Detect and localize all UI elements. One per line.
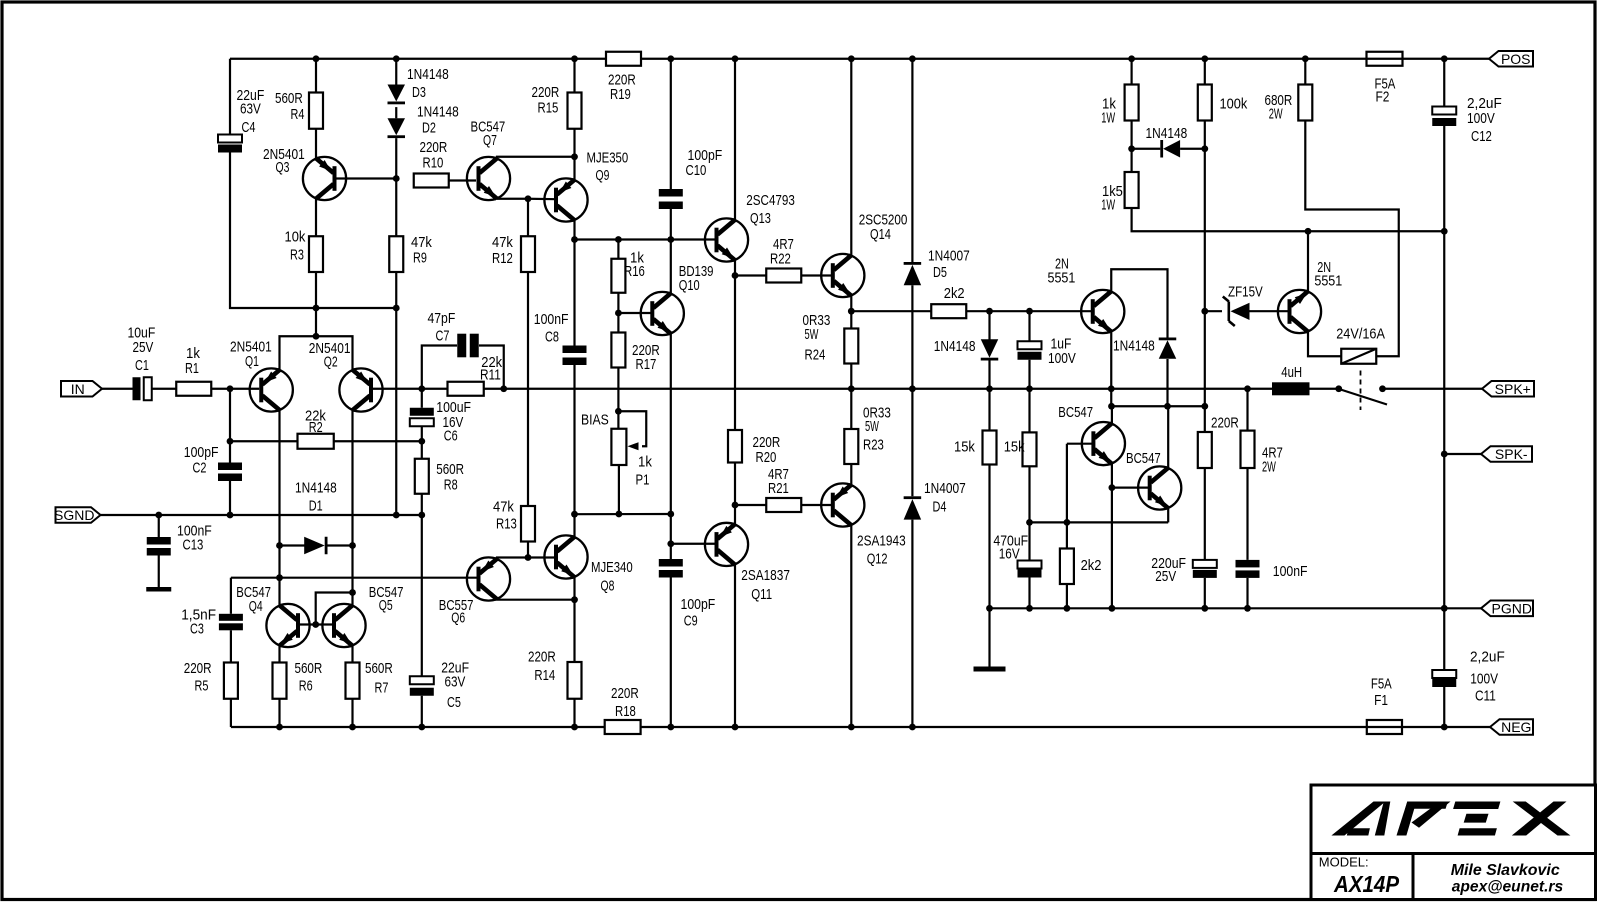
diode D 1N4148 bbox=[1160, 140, 1180, 158]
resistor R 4R7 2W bbox=[1241, 431, 1255, 468]
svg-text:100V: 100V bbox=[1467, 110, 1495, 127]
junction dot bbox=[909, 385, 916, 392]
junction dot bbox=[1026, 308, 1033, 315]
svg-text:1N4148: 1N4148 bbox=[1146, 125, 1188, 142]
svg-text:C10: C10 bbox=[686, 162, 707, 179]
junction dot bbox=[418, 438, 425, 445]
svg-text:47k: 47k bbox=[493, 499, 514, 516]
svg-text:R21: R21 bbox=[768, 480, 789, 497]
svg-text:100nF: 100nF bbox=[534, 311, 569, 328]
junction dot bbox=[1201, 55, 1208, 62]
wire R17 to P1 bbox=[617, 368, 619, 429]
svg-text:Q12: Q12 bbox=[867, 551, 888, 568]
svg-text:R24: R24 bbox=[805, 347, 826, 364]
resistor R10 220R bbox=[414, 174, 449, 188]
wire Q8 collector bbox=[573, 514, 575, 537]
transistor Q18 2N5551 bbox=[1278, 290, 1321, 333]
wire Q1 collector down bbox=[278, 410, 280, 545]
junction dot bbox=[848, 55, 855, 62]
wire R7 to bottom rail bbox=[351, 699, 353, 727]
node PGND bbox=[1481, 601, 1533, 617]
junction dot bbox=[571, 153, 578, 160]
svg-text:2,2uF: 2,2uF bbox=[1470, 649, 1505, 666]
capacitor C 220uF 25V bbox=[1193, 560, 1217, 578]
wire R13 bottom bbox=[527, 542, 529, 558]
wire Q4 emitter to R6 bbox=[278, 646, 280, 663]
svg-text:R16: R16 bbox=[624, 263, 645, 280]
svg-text:apex@eunet.rs: apex@eunet.rs bbox=[1452, 879, 1564, 896]
junction dot bbox=[1441, 451, 1448, 458]
svg-text:1N4148: 1N4148 bbox=[417, 104, 459, 121]
junction dot bbox=[1441, 724, 1448, 731]
resistor R6 560R bbox=[273, 663, 287, 699]
resistor R3 10k bbox=[309, 236, 323, 272]
ground bbox=[974, 667, 1006, 672]
wire R2 left bbox=[230, 440, 298, 442]
wire R16 top bbox=[617, 240, 619, 259]
transistor Q15 2N5551 bbox=[1081, 290, 1124, 333]
svg-text:ZF15V: ZF15V bbox=[1228, 284, 1263, 301]
junction dot bbox=[1026, 519, 1033, 526]
svg-text:1k: 1k bbox=[638, 454, 652, 471]
wire Q9 base bbox=[528, 198, 556, 201]
wire to 470uF bbox=[1028, 522, 1030, 560]
wire to 1N4148 bbox=[1132, 148, 1161, 150]
wire Q10 emitter down bbox=[670, 334, 672, 514]
svg-text:R10: R10 bbox=[423, 155, 444, 172]
svg-text:C11: C11 bbox=[1475, 688, 1496, 705]
wire Q7 emitter to R12 node bbox=[497, 198, 528, 200]
resistor R22 4R7 bbox=[766, 269, 801, 283]
wire mirror to Q6 base bbox=[231, 577, 477, 579]
wire to R22 bbox=[735, 274, 766, 276]
svg-text:D1: D1 bbox=[309, 498, 323, 515]
svg-text:1N4148: 1N4148 bbox=[407, 66, 449, 83]
svg-text:25V: 25V bbox=[133, 339, 154, 356]
node NEG bbox=[1490, 719, 1533, 735]
svg-text:C8: C8 bbox=[545, 329, 559, 346]
junction dot bbox=[276, 542, 283, 549]
junction dot bbox=[349, 542, 356, 549]
resistor R 220R bbox=[1198, 432, 1212, 468]
wire IN to C1 bbox=[102, 388, 133, 390]
svg-text:C2: C2 bbox=[193, 460, 207, 477]
resistor R 2k2 bbox=[931, 304, 966, 318]
wire to zener bbox=[1205, 310, 1222, 312]
junction dot bbox=[732, 272, 739, 279]
wire R3 to LTP emitters bbox=[315, 272, 317, 336]
svg-text:5W: 5W bbox=[805, 326, 819, 343]
svg-text:R13: R13 bbox=[496, 516, 517, 533]
svg-text:63V: 63V bbox=[445, 674, 466, 691]
P1 wiper arrow bbox=[628, 442, 639, 450]
svg-text:1N4007: 1N4007 bbox=[928, 248, 970, 265]
wire output to R23 bbox=[850, 389, 852, 429]
wire R15 top bbox=[573, 59, 575, 93]
svg-text:5551: 5551 bbox=[1048, 270, 1076, 287]
svg-text:D5: D5 bbox=[933, 264, 947, 281]
wire C2 to SGND bbox=[229, 481, 231, 515]
transistor Q3 2N5401 bbox=[303, 157, 346, 200]
svg-text:220R: 220R bbox=[611, 685, 639, 702]
svg-text:R20: R20 bbox=[756, 449, 777, 466]
wire Q13 collector bbox=[734, 59, 736, 220]
junction dot bbox=[848, 724, 855, 731]
wire 1N4148 to sense line bbox=[1166, 359, 1168, 406]
wire Q13 emitter bbox=[734, 260, 736, 275]
relay coil 24V/16A bbox=[1341, 349, 1376, 364]
svg-text:R4: R4 bbox=[291, 106, 305, 123]
potentiometer P1 1k bbox=[611, 429, 626, 465]
wire R14 to bottom rail bbox=[573, 699, 575, 727]
svg-text:220R: 220R bbox=[420, 139, 448, 156]
svg-text:Q4: Q4 bbox=[249, 598, 263, 615]
svg-text:220R: 220R bbox=[532, 84, 560, 101]
wire 470uF to pgnd bbox=[1028, 578, 1030, 609]
svg-text:P1: P1 bbox=[636, 472, 650, 489]
svg-text:5W: 5W bbox=[865, 418, 879, 435]
svg-text:C4: C4 bbox=[242, 119, 256, 136]
svg-text:R7: R7 bbox=[375, 680, 389, 697]
svg-text:R5: R5 bbox=[195, 678, 209, 695]
junction dot bbox=[1108, 385, 1115, 392]
wire bottom rail left bbox=[231, 726, 605, 728]
junction dot bbox=[418, 385, 425, 392]
svg-text:R18: R18 bbox=[615, 703, 636, 720]
ground bbox=[146, 587, 171, 592]
junction dot bbox=[1026, 385, 1033, 392]
junction dot bbox=[1026, 605, 1033, 612]
junction dot bbox=[667, 724, 674, 731]
svg-text:C5: C5 bbox=[447, 694, 461, 711]
wire D5 cathode bbox=[911, 59, 913, 262]
junction dot bbox=[1064, 519, 1071, 526]
transistor Q11 2SA1837 bbox=[705, 523, 748, 566]
junction dot bbox=[571, 596, 578, 603]
wire R16 to R17 bbox=[617, 293, 619, 333]
wire D5 to output line bbox=[911, 285, 913, 388]
wire R12 top bbox=[527, 199, 529, 237]
svg-text:220R: 220R bbox=[1211, 415, 1239, 432]
svg-text:R1: R1 bbox=[185, 360, 199, 377]
svg-text:100V: 100V bbox=[1470, 671, 1498, 688]
capacitor C5 22uF 63V bbox=[410, 676, 434, 696]
junction dot bbox=[313, 55, 320, 62]
wire POS to C12 bbox=[1443, 59, 1445, 107]
svg-text:R15: R15 bbox=[538, 100, 559, 117]
capacitor C7 47pF bbox=[457, 334, 479, 358]
wire base tie to Q5 collector bbox=[316, 593, 353, 625]
svg-text:220R: 220R bbox=[528, 649, 556, 666]
svg-text:Q8: Q8 bbox=[601, 578, 615, 595]
wire Q5 emitter to R7 bbox=[351, 646, 353, 663]
junction dot bbox=[312, 621, 319, 628]
wire R22 to Q14 base bbox=[801, 274, 833, 276]
transistor Q5 BC547 bbox=[322, 604, 365, 647]
wire D1 cathode bbox=[328, 544, 353, 546]
svg-text:47k: 47k bbox=[492, 234, 513, 251]
svg-text:PGND: PGND bbox=[1492, 601, 1532, 617]
svg-text:R3: R3 bbox=[290, 247, 304, 264]
wire Q16 collector bbox=[1111, 406, 1113, 423]
svg-text:Mile Slavkovic: Mile Slavkovic bbox=[1451, 862, 1560, 879]
wire Q6 collector to Q8 emitter bbox=[497, 598, 575, 601]
wire D3 anode bbox=[395, 59, 397, 85]
junction dot bbox=[1201, 308, 1208, 315]
junction dot bbox=[1109, 605, 1116, 612]
svg-text:1W: 1W bbox=[1101, 197, 1115, 214]
svg-text:2k2: 2k2 bbox=[1081, 557, 1102, 574]
resistor R2 22k bbox=[298, 434, 334, 449]
svg-text:Q2: Q2 bbox=[324, 354, 338, 371]
wire R1 to Q1 base bbox=[211, 388, 259, 390]
junction dot bbox=[525, 195, 532, 202]
wire P1 wiper bbox=[618, 411, 646, 446]
wire Q4 Q5 bases bbox=[300, 623, 334, 625]
wire C1 to R1 bbox=[152, 388, 177, 390]
capacitor C4 22uF 63V bbox=[218, 135, 242, 153]
svg-text:BC547: BC547 bbox=[1058, 404, 1093, 421]
svg-text:R8: R8 bbox=[444, 477, 458, 494]
wire C7 left bbox=[422, 346, 457, 389]
junction dot bbox=[1305, 228, 1312, 235]
junction dot bbox=[155, 512, 162, 519]
transistor Q2 2N5401 bbox=[339, 368, 382, 411]
wire base bias line bbox=[1030, 521, 1169, 523]
wire Q2 collector down bbox=[351, 410, 353, 545]
wire to C3 bbox=[230, 578, 232, 614]
wire to Q17 emitter bbox=[1167, 508, 1169, 522]
svg-text:Q13: Q13 bbox=[750, 210, 771, 227]
resistor R 1k 1W bbox=[1125, 85, 1139, 121]
svg-text:100nF: 100nF bbox=[1273, 563, 1308, 580]
junction dot bbox=[1244, 605, 1251, 612]
transistor Q17 BC547 bbox=[1138, 466, 1181, 509]
wire to C2 bbox=[229, 389, 231, 463]
wire Q11 base bbox=[671, 543, 717, 545]
svg-text:C9: C9 bbox=[684, 613, 698, 630]
junction dot bbox=[909, 724, 916, 731]
resistor R18 220R bbox=[605, 720, 641, 734]
wire pgnd line bbox=[990, 607, 1482, 609]
wire Q6 emitter to Q8 base bbox=[497, 558, 554, 559]
wire output to 4R7 bbox=[1246, 389, 1248, 431]
diode D 1N4148 bbox=[981, 339, 999, 360]
wire C3 to R5 bbox=[230, 630, 232, 662]
relay actuator dashed line bbox=[1360, 371, 1362, 411]
wire to C9 bbox=[670, 544, 672, 559]
wire Q3 base to D2 node bbox=[335, 177, 397, 179]
svg-text:24V/16A: 24V/16A bbox=[1336, 326, 1385, 343]
resistor R 100k bbox=[1198, 85, 1212, 121]
wire C10 top bbox=[670, 59, 672, 189]
junction dot bbox=[276, 724, 283, 731]
wire zener to Q18 base bbox=[1250, 310, 1290, 312]
svg-text:Q6: Q6 bbox=[451, 610, 465, 627]
junction dot bbox=[571, 724, 578, 731]
resistor R 15k bbox=[1023, 432, 1037, 466]
junction dot bbox=[986, 385, 993, 392]
wire output to 15k bbox=[988, 389, 990, 431]
wire C4 bottom to R3/R9 nodes bbox=[230, 153, 396, 309]
junction dot bbox=[615, 236, 622, 243]
svg-text:D4: D4 bbox=[933, 499, 947, 516]
junction dot bbox=[418, 512, 425, 519]
wire 4R7 to 100nF bbox=[1246, 468, 1248, 560]
wire Vbe multiplier bottom line bbox=[575, 513, 671, 515]
wire R5 to bottom rail bbox=[230, 699, 232, 727]
wire R8 to SGND bbox=[421, 494, 423, 515]
svg-text:560R: 560R bbox=[275, 90, 303, 107]
wire R15 bottom bbox=[573, 129, 575, 157]
transistor Q9 MJE350 bbox=[544, 178, 587, 221]
svg-text:BC547: BC547 bbox=[1126, 450, 1161, 467]
junction dot bbox=[1441, 228, 1448, 235]
svg-text:SPK+: SPK+ bbox=[1495, 381, 1531, 397]
junction dot bbox=[227, 385, 234, 392]
junction dot bbox=[349, 589, 356, 596]
wire bottom rail right bbox=[641, 726, 1367, 728]
title block frame bbox=[1311, 785, 1596, 900]
diode D 1N4148 bbox=[1159, 338, 1177, 359]
svg-text:C1: C1 bbox=[135, 357, 149, 374]
svg-text:2k2: 2k2 bbox=[944, 285, 965, 302]
transistor Q1 2N5401 bbox=[250, 368, 293, 411]
svg-text:R19: R19 bbox=[610, 86, 631, 103]
svg-text:NEG: NEG bbox=[1501, 719, 1531, 735]
junction dot bbox=[571, 511, 578, 518]
resistor R21 4R7 bbox=[766, 498, 801, 512]
resistor R19 bbox=[606, 52, 641, 66]
junction dot bbox=[227, 512, 234, 519]
wire 2k2 to pgnd bbox=[1066, 584, 1068, 608]
resistor R 15k bbox=[983, 431, 997, 465]
wire D2 to R9 bbox=[395, 138, 397, 236]
resistor R12 47k bbox=[521, 236, 535, 272]
junction dot bbox=[525, 554, 532, 561]
junction dot bbox=[500, 385, 507, 392]
junction dot bbox=[1201, 145, 1208, 152]
svg-text:63V: 63V bbox=[240, 101, 261, 118]
fuse F1 bbox=[1367, 720, 1402, 734]
svg-text:IN: IN bbox=[71, 381, 85, 397]
wire R4 top bbox=[315, 59, 317, 93]
svg-text:C6: C6 bbox=[444, 428, 458, 445]
junction dot bbox=[393, 305, 400, 312]
wire C10 bottom bbox=[670, 209, 672, 240]
zener ZF15V bbox=[1223, 297, 1250, 327]
wire 100nF to pgnd bbox=[1246, 578, 1248, 608]
svg-text:560R: 560R bbox=[365, 660, 393, 677]
junction dot bbox=[1128, 145, 1135, 152]
svg-text:47k: 47k bbox=[411, 234, 432, 251]
capacitor C2 100pF bbox=[218, 463, 242, 482]
wire 2k2 to Q15 base bbox=[966, 310, 1093, 312]
wire Q16 emitter to pgnd bbox=[1111, 464, 1113, 608]
transistor Q16 BC547 bbox=[1082, 422, 1125, 465]
junction dot bbox=[732, 502, 739, 509]
svg-text:Q1: Q1 bbox=[245, 353, 259, 370]
transistor Q10 BD139 bbox=[641, 292, 684, 335]
svg-text:C3: C3 bbox=[190, 621, 204, 638]
svg-text:F2: F2 bbox=[1376, 89, 1390, 106]
transistor Q13 2SC4793 bbox=[705, 218, 748, 261]
wire Q17 collector bbox=[1167, 406, 1169, 467]
svg-text:2W: 2W bbox=[1269, 106, 1283, 123]
resistor R 2k2 bbox=[1060, 549, 1074, 585]
wire Q10 base bbox=[618, 312, 652, 314]
wire Q9 emitter up bbox=[573, 157, 575, 180]
svg-text:Q3: Q3 bbox=[276, 159, 290, 176]
svg-text:R14: R14 bbox=[534, 667, 555, 684]
capacitor C 100nF bbox=[1236, 560, 1260, 578]
wire 1k to 1k5 bbox=[1130, 121, 1132, 173]
junction dot bbox=[313, 333, 320, 340]
capacitor C3 1,5nF bbox=[219, 614, 243, 631]
node SGND bbox=[54, 507, 100, 523]
svg-text:MODEL:: MODEL: bbox=[1319, 855, 1369, 870]
wire node to Q11 base tap bbox=[670, 514, 672, 544]
svg-text:25V: 25V bbox=[1155, 568, 1176, 585]
svg-text:10k: 10k bbox=[285, 229, 306, 246]
svg-text:POS: POS bbox=[1501, 51, 1531, 67]
wire C12 down to SPK- line bbox=[1443, 126, 1445, 454]
resistor R13 47k bbox=[521, 506, 535, 542]
wire switch to SPK+ bbox=[1383, 388, 1483, 390]
transistor Q7 BC547 bbox=[467, 157, 510, 200]
svg-text:2W: 2W bbox=[1262, 459, 1276, 476]
junction dot bbox=[571, 55, 578, 62]
svg-text:220R: 220R bbox=[184, 660, 212, 677]
fuse F2 bbox=[1367, 52, 1403, 66]
capacitor C9 100pF bbox=[659, 559, 683, 578]
junction dot bbox=[616, 511, 623, 518]
svg-text:15k: 15k bbox=[1004, 439, 1025, 456]
diode D3 1N4148 bbox=[388, 85, 406, 105]
transistor Q14 2SC5200 bbox=[821, 254, 864, 297]
svg-text:Q14: Q14 bbox=[870, 226, 891, 243]
wire R4 to Q3 emitter bbox=[315, 129, 317, 158]
wire 15k down bbox=[1028, 466, 1030, 522]
junction dot bbox=[848, 308, 855, 315]
wire inductor to switch bbox=[1310, 388, 1339, 390]
svg-text:1N4148: 1N4148 bbox=[295, 480, 337, 497]
wire Q14 emitter to 2k2 bbox=[851, 310, 931, 312]
diode D5 1N4007 bbox=[904, 262, 922, 285]
diode D4 1N4007 bbox=[904, 496, 922, 519]
wire SPK- line bbox=[1444, 453, 1481, 455]
wire C11 to NEG rail bbox=[1443, 687, 1445, 727]
junction dot bbox=[1441, 605, 1448, 612]
wire to Q4 collector bbox=[278, 546, 280, 606]
wire to C11 bbox=[1443, 454, 1445, 670]
svg-text:Q7: Q7 bbox=[483, 132, 497, 149]
junction dot bbox=[732, 724, 739, 731]
junction dot bbox=[1128, 55, 1135, 62]
resistor R11 22k bbox=[448, 382, 484, 396]
wire relay to 680R bbox=[1305, 121, 1398, 357]
capacitor C1 10uF 25V bbox=[133, 377, 152, 400]
wire 100k bottom bbox=[1204, 121, 1206, 149]
svg-text:C13: C13 bbox=[183, 537, 204, 554]
wire Q10 collector bbox=[670, 240, 672, 294]
wire Q18 collector to relay bbox=[1308, 332, 1341, 356]
resistor R1 1k bbox=[176, 382, 211, 396]
wire R9 to SGND line bbox=[395, 272, 397, 515]
wire Q17 base bbox=[1112, 487, 1150, 489]
junction dot bbox=[667, 511, 674, 518]
svg-text:100k: 100k bbox=[1220, 96, 1248, 113]
